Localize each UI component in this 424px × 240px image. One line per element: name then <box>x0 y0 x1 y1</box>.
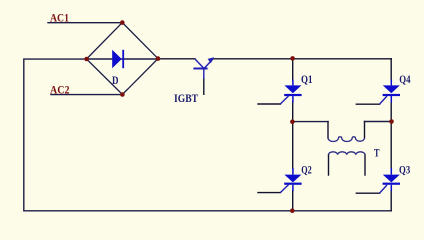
IGBT base bar <box>193 68 207 70</box>
svg-text:Q4: Q4 <box>399 72 410 86</box>
IGBT collector diagonal <box>195 59 204 69</box>
svg-text:AC1: AC1 <box>50 10 69 24</box>
Q3 cathode lead <box>390 185 392 191</box>
svg-text:Q2: Q2 <box>301 163 312 177</box>
wire left leg: Q1 to mid dot <box>292 102 294 122</box>
wire Q3 gate stub <box>356 192 379 194</box>
wire top rail: IGBT to right leg corner <box>214 58 392 60</box>
svg-text:AC2: AC2 <box>50 82 70 96</box>
wire middle rail right of transformer <box>365 121 392 123</box>
Q3 triangle <box>383 175 400 183</box>
junction dot: top rail left leg <box>290 56 295 61</box>
wire diamond horizontal (left vertex to right vertex) <box>87 58 159 60</box>
junction dot: right leg middle <box>389 119 394 124</box>
svg-text:Q1: Q1 <box>301 72 313 86</box>
IGBT arrowhead <box>208 57 215 63</box>
wire top rail: right vertex to IGBT <box>158 58 195 60</box>
Q1 gate diagonal <box>280 96 288 104</box>
wire Q4 gate stub <box>356 103 379 105</box>
wire Q2 gate stub <box>258 192 280 194</box>
thyristor Q1 <box>280 80 301 105</box>
Q2 cathode bar <box>284 183 301 185</box>
Q2 cathode lead <box>292 185 294 191</box>
wire left leg: mid dot to Q2 <box>292 122 294 169</box>
Q3 gate diagonal <box>380 185 388 193</box>
Q2 gate diagonal <box>280 185 288 193</box>
wire left leg: top dot down to Q1 <box>292 58 294 80</box>
Q1 anode lead <box>292 80 294 86</box>
junction dot: diamond right <box>156 56 161 61</box>
Q4 gate diagonal <box>380 96 388 104</box>
wire middle rail left of transformer <box>293 121 328 123</box>
wire transformer primary left lead <box>327 122 329 138</box>
Q4 triangle <box>383 85 400 93</box>
wire right leg between Q4 and mid dot <box>390 102 392 122</box>
wire right leg between mid dot and Q3 <box>390 122 392 169</box>
wire transformer secondary right lead <box>364 155 366 175</box>
bridge rectifier diamond outline <box>87 23 159 95</box>
transformer T secondary winding <box>329 152 365 155</box>
svg-text:D: D <box>112 73 119 87</box>
wire right leg below Q3 <box>390 191 392 211</box>
wire right leg top segment <box>390 59 392 80</box>
Q1 triangle <box>284 85 301 93</box>
IGBT symbol <box>193 59 212 79</box>
thyristor Q2 <box>280 168 301 193</box>
thyristor Q4 <box>380 80 401 105</box>
wire AC1 lead <box>48 22 121 24</box>
transformer T primary winding <box>328 137 365 142</box>
svg-text:Q3: Q3 <box>399 163 410 177</box>
junction dot: diamond bottom <box>120 92 125 97</box>
wire AC2 lead <box>51 94 121 96</box>
wire left loop: left vertex to left edge, down, bottom rail <box>24 59 391 211</box>
wire transformer primary right lead <box>364 122 366 138</box>
thyristor Q3 <box>380 168 401 193</box>
Q2 anode lead <box>292 168 294 175</box>
IGBT vertical lead (blue part) <box>203 69 205 80</box>
Q3 anode lead <box>390 168 392 175</box>
Q4 cathode bar <box>383 94 400 96</box>
junction dot: diamond top <box>120 20 125 25</box>
diode D cathode bar <box>122 50 124 68</box>
svg-text:T: T <box>374 145 380 159</box>
Q1 cathode lead <box>292 96 294 103</box>
Q3 cathode bar <box>383 183 400 185</box>
junction dot: left leg middle <box>290 119 295 124</box>
diode D triangle <box>112 50 122 68</box>
IGBT emitter diagonal <box>204 59 213 68</box>
wire IGBT bottom lead <box>203 79 205 95</box>
Q1 cathode bar <box>284 94 301 96</box>
wire transformer secondary left lead <box>328 155 330 175</box>
Q4 cathode lead <box>390 96 392 103</box>
wire Q1 gate stub <box>258 103 280 105</box>
Q4 anode lead <box>390 80 392 86</box>
wire left leg: Q2 to bottom rail <box>292 191 294 211</box>
junction dot: left leg bottom <box>290 208 295 213</box>
junction dot: diamond left <box>84 57 89 62</box>
svg-text:IGBT: IGBT <box>174 91 198 105</box>
Q2 triangle <box>284 175 301 183</box>
